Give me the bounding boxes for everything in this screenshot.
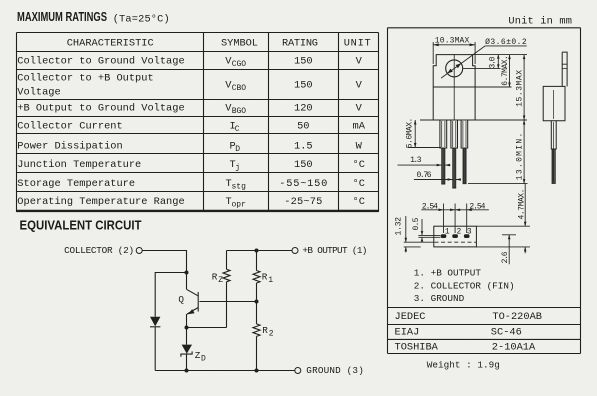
front view body [433, 55, 475, 120]
dim dia 3.6 leader [441, 38, 527, 78]
extension lines right of front view [463, 55, 528, 184]
dim 15.3MAX [516, 55, 526, 120]
dim 4.7MAX [476, 184, 530, 254]
dim 2.6 [501, 235, 516, 264]
resistor R2 [253, 302, 274, 371]
wire emitter to zener [186, 328, 188, 345]
dim 6.7MAX [501, 55, 511, 87]
wire junction to diode branch [155, 273, 186, 317]
bottom view pins [441, 227, 472, 238]
resistor RZ [212, 251, 230, 328]
dim 0.76 [414, 171, 461, 181]
dim 1.32 [395, 216, 434, 252]
dim 13.0MIN [516, 120, 526, 184]
dim 1.3 [398, 156, 451, 167]
pin list [414, 268, 515, 305]
dim 5.6MAX [406, 118, 441, 149]
wire zener to ground [186, 354, 188, 371]
node zener/ground junction [185, 369, 189, 373]
zener diode ZD [181, 345, 206, 364]
dim 10.3MAX [433, 37, 475, 65]
diode D1 [150, 317, 160, 327]
wire +B line [227, 250, 293, 252]
transistor Q (NPN) [178, 289, 198, 314]
dim 2.54 pitch [421, 203, 489, 233]
wire collector terminal to collector vertical [142, 251, 186, 290]
outline box frame [388, 28, 581, 354]
dim 0.5 [412, 217, 441, 241]
wire RZ bottom to emitter junction [187, 327, 227, 329]
bottom view [434, 226, 477, 247]
node GROUND (3) terminal [295, 368, 301, 374]
node A junction collector/diode branch [185, 271, 189, 275]
node emitter junction [185, 326, 189, 330]
wire ground line [155, 370, 295, 372]
node R1 top junction on +B line [255, 249, 259, 253]
resistor R1 [253, 251, 273, 302]
wire base to R1/R2 junction [199, 301, 256, 303]
side view [543, 52, 567, 183]
JEDEC/EIAJ/TOSHIBA table [395, 311, 542, 353]
wire diode to ground line [154, 327, 156, 371]
front view leads [440, 120, 468, 188]
dim 3.0 [489, 55, 500, 69]
node R2/ground junction [255, 369, 259, 373]
node base/R1/R2 junction [255, 300, 259, 304]
wire emitter down [186, 314, 188, 328]
